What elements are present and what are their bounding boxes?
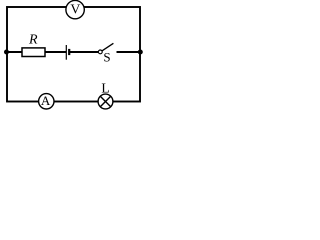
switch S blade (open): [102, 43, 113, 51]
wire: switch to right rail: [117, 51, 141, 53]
battery cell short plate: [68, 49, 70, 55]
switch S pivot circle: [98, 50, 102, 54]
resistor R1 box: [22, 48, 45, 57]
battery cell long plate: [65, 45, 67, 60]
lamp L1 cross stroke 2: [100, 96, 110, 106]
wire: battery to switch: [69, 51, 98, 53]
wire: outer loop (left, top, right, bottom): [7, 7, 140, 102]
svg-text:V: V: [70, 1, 80, 16]
svg-text:L: L: [101, 81, 109, 96]
lamp L1 circle: [98, 94, 113, 109]
voltmeter V1 circle: [66, 0, 84, 18]
svg-text:A: A: [41, 93, 51, 108]
svg-text:S: S: [103, 49, 110, 64]
lamp L1 cross stroke 1: [100, 96, 110, 106]
svg-text:R: R: [28, 32, 38, 47]
node junction left: [4, 50, 9, 55]
node junction right: [138, 50, 143, 55]
ammeter A1 circle: [39, 94, 54, 109]
wire: middle branch left segment (to battery): [7, 51, 66, 53]
